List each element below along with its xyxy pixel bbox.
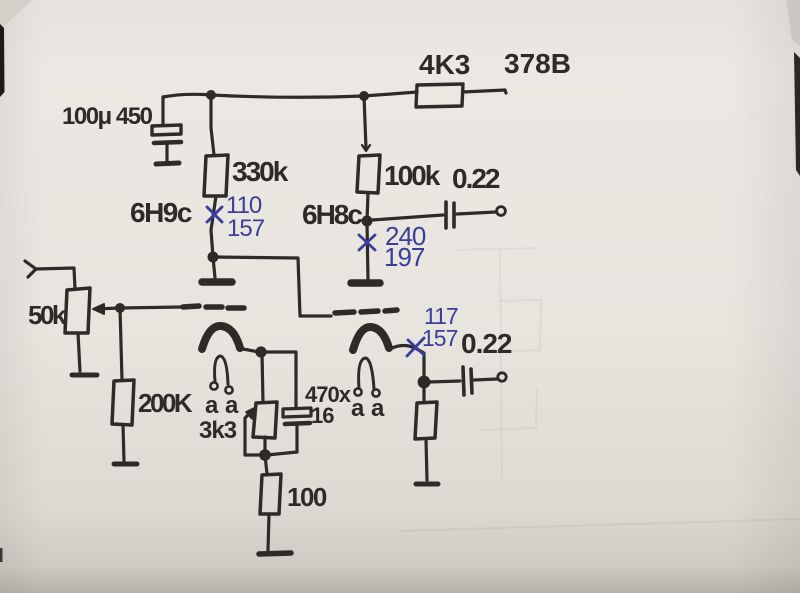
wire: rail to filter cap C1 (161, 97, 164, 124)
resistor R7 cathode body (415, 402, 437, 439)
wire: R3 to 378V supply (463, 90, 506, 93)
svg-text:157: 157 (422, 325, 458, 351)
wire: cathode node to bypass cap branch (261, 352, 296, 407)
wire: R1 to V1 plate node (211, 196, 216, 257)
wire: wiper junction down to R4 200K (120, 308, 122, 380)
wire: direct coupling V1 plate node to V2 grid (213, 257, 331, 316)
ground under R7 (416, 482, 438, 487)
node: rail junction to R1 330k (206, 90, 216, 100)
output terminal 1 (497, 207, 506, 216)
output terminal 2 (498, 373, 506, 381)
tube V2 grid dashes (335, 312, 354, 313)
wire: pot bottom to ground (78, 333, 80, 371)
annotation X on V2 cathode wire (407, 338, 424, 356)
input terminal hook (25, 261, 36, 277)
ground under R4 (114, 462, 137, 467)
svg-text:197: 197 (384, 242, 425, 272)
wire: R7 to ground (426, 439, 427, 480)
resistor R3 4K3 body (416, 84, 463, 107)
svg-text:50k: 50k (28, 300, 67, 330)
tube V1 heater pin circles (210, 382, 217, 389)
R5 wiper strap with arrow (245, 411, 265, 455)
tube V1 6N9S plate bar (202, 278, 232, 286)
wire: cathode node down to R5 3k3 (262, 352, 263, 402)
svg-text:330k: 330k (232, 156, 289, 187)
tube V2 heater pin circles (354, 388, 361, 395)
capacitor C3 bottom plate (285, 423, 310, 424)
wire: V2 plate node down to plate (367, 221, 368, 280)
svg-text:100μ 450: 100μ 450 (62, 103, 153, 130)
tube V1 heater hairpin (215, 356, 228, 384)
svg-text:6H8c: 6H8c (302, 199, 362, 230)
resistor R1 330k body (204, 155, 228, 196)
svg-text:378B: 378B (504, 48, 571, 79)
wire: V2 cathode to follower node (392, 346, 424, 379)
resistor R2 100k body (357, 155, 380, 193)
resistor R4 200K body (112, 380, 134, 425)
svg-text:100: 100 (287, 482, 327, 512)
wire: B+ top rail (163, 92, 417, 97)
wire: rail to R2 100k with arrowhead (364, 96, 366, 148)
wire: rail to R1 330k (211, 95, 214, 155)
svg-text:0.22: 0.22 (461, 328, 512, 359)
wire: R6 to ground (268, 514, 269, 550)
ground under pot (72, 373, 97, 378)
resistor R5 3k3 body (253, 402, 277, 438)
tube V1 grid dashes (183, 306, 199, 307)
wire: input to pot 50k (36, 268, 75, 289)
svg-text:3k3: 3k3 (199, 417, 237, 444)
wire: C1 to ground (165, 145, 168, 161)
capacitor C1 bottom plate (154, 142, 181, 143)
tube V2 heater hairpin (359, 358, 374, 389)
svg-text:4K3: 4K3 (419, 49, 470, 80)
svg-text:a a: a a (205, 392, 239, 419)
wire: wiper junction to V1 grid (120, 307, 182, 308)
svg-text:a a: a a (351, 395, 385, 422)
wire: cathode node down to R7 (422, 382, 425, 402)
node: V2 cathode junction (418, 376, 431, 389)
node: V1 cathode junction (255, 346, 266, 357)
tube V1 cathode arc (202, 326, 240, 349)
capacitor C2 0.22 plates (444, 202, 448, 228)
resistor R3 4K3 lead left (415, 90, 418, 93)
capacitor C1 100u/450 electrolytic top plate (152, 125, 181, 135)
svg-text:6H9c: 6H9c (130, 197, 192, 228)
ground under C1 (156, 163, 179, 164)
annotation X on V1 plate wire (207, 207, 222, 222)
svg-text:16: 16 (311, 403, 334, 428)
capacitor C4 0.22 plates (463, 367, 464, 395)
ground under R6 (259, 553, 291, 554)
tube V2 cathode arc (353, 327, 389, 350)
svg-text:0.22: 0.22 (452, 163, 500, 194)
wire: R2 to V2 plate node (367, 193, 368, 221)
wire: V1 cathode to node (243, 349, 259, 352)
node: V1 plate / coupling junction (208, 252, 219, 263)
wire: C2 to output terminal 1 (457, 212, 496, 214)
resistor R6 100 body (260, 474, 281, 514)
wire: R5 bottom to node (263, 437, 266, 452)
wire: bottom junction to R6 100 (265, 455, 267, 474)
wire: V2 plate node to coupling cap C2 (372, 215, 443, 220)
pot wiper arrow (96, 308, 119, 309)
svg-text:200K: 200K (138, 388, 193, 418)
tube V2 6N8S plate bar (351, 279, 380, 287)
capacitor C3 470x16 top plate (283, 408, 311, 417)
node: cathode network bottom junction (259, 449, 271, 461)
annotation X on V2 plate wire (359, 235, 375, 250)
svg-text:157: 157 (227, 215, 265, 242)
wire: R4 to ground (123, 425, 124, 461)
svg-text:100k: 100k (384, 160, 441, 191)
wire: node to C4 0.22 (429, 381, 460, 382)
node: wiper junction (115, 303, 125, 313)
wire: C3 bottom to cathode bottom node (267, 426, 297, 455)
potentiometer 50k body (65, 288, 90, 333)
node: V2 plate / output junction (362, 216, 373, 227)
wire: junction down to V1 plate (213, 257, 215, 278)
node: rail junction to R2 100k (359, 91, 369, 101)
wire: C4 to output terminal 2 (474, 379, 497, 380)
